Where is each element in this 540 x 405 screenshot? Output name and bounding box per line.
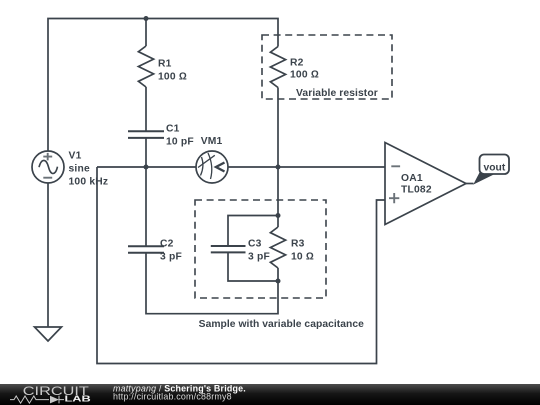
svg-text:VM1: VM1	[201, 136, 223, 147]
node vout flag pointer	[473, 171, 493, 185]
wire middle rail left segment	[97, 166, 196, 168]
capacitor C3	[211, 246, 246, 252]
capacitor C2	[128, 246, 164, 253]
svg-text:10 pF: 10 pF	[166, 137, 194, 148]
wire C1 to middle rail	[145, 138, 147, 167]
wire middle rail right segment to op-amp minus	[228, 166, 385, 168]
node left midpoint	[144, 165, 149, 170]
junction dots	[144, 16, 281, 284]
wire top rail from V1 top to R2 branch	[48, 19, 278, 152]
svg-text:C3: C3	[248, 238, 262, 249]
svg-text:R3: R3	[291, 238, 305, 249]
wire C3 branch bottom	[228, 252, 278, 281]
svg-text:C2: C2	[160, 238, 174, 249]
wire plus-input loop: left midpoint down, across bottom, up to op-amp plus	[97, 167, 385, 364]
wire C2 top lead	[145, 167, 147, 246]
node sample bottom	[276, 279, 281, 284]
resistor R1	[138, 46, 153, 87]
svg-text:100 Ω: 100 Ω	[290, 70, 319, 81]
wire C3 branch top	[228, 216, 278, 247]
ground	[35, 327, 62, 341]
svg-text:100 Ω: 100 Ω	[158, 71, 187, 82]
node top rail / R1	[144, 16, 149, 21]
svg-text:3 pF: 3 pF	[248, 252, 270, 263]
svg-text:10 Ω: 10 Ω	[291, 252, 314, 263]
svg-text:vout: vout	[484, 162, 506, 173]
node right midpoint	[276, 165, 281, 170]
svg-text:R2: R2	[290, 57, 304, 68]
wire V1 bottom lead to ground	[47, 183, 49, 327]
dashed box Variable resistor	[262, 35, 392, 99]
svg-text:3 pF: 3 pF	[160, 252, 182, 263]
svg-text:V1: V1	[69, 150, 82, 161]
logo doodle: wire resistor diode	[10, 396, 64, 404]
svg-text:LAB: LAB	[65, 394, 91, 404]
wire R3 bottom lead	[277, 268, 279, 281]
svg-text:sine: sine	[69, 163, 90, 174]
svg-text:R1: R1	[158, 58, 172, 69]
svg-text:http://circuitlab.com/c88rmy8: http://circuitlab.com/c88rmy8	[113, 392, 232, 402]
wire R1 top lead	[145, 19, 147, 47]
svg-text:100 kHz: 100 kHz	[69, 176, 109, 187]
wire right midpoint down into sample box	[277, 167, 279, 216]
resistor R3	[270, 227, 285, 268]
wire R2 bottom lead to right midpoint	[277, 88, 279, 168]
op-amp OA1	[385, 143, 466, 225]
resistor R2	[270, 47, 285, 88]
dashed box Sample	[195, 200, 326, 298]
voltage source V1	[32, 151, 64, 183]
wire C2 bottom to sample bottom	[146, 253, 278, 314]
svg-text:Variable resistor: Variable resistor	[296, 88, 378, 99]
wire R1 bottom lead to C1	[145, 87, 147, 131]
node vout flag	[480, 155, 510, 175]
wire op-amp output stub	[466, 183, 474, 185]
svg-text:Sample with variable capacitan: Sample with variable capacitance	[199, 319, 365, 330]
svg-text:C1: C1	[166, 123, 180, 134]
svg-text:OA1: OA1	[401, 173, 423, 184]
wire R3 top lead	[277, 216, 279, 228]
capacitor C1	[128, 131, 164, 138]
node sample top	[276, 213, 281, 218]
voltmeter VM1	[196, 151, 228, 183]
svg-text:TL082: TL082	[401, 185, 432, 196]
